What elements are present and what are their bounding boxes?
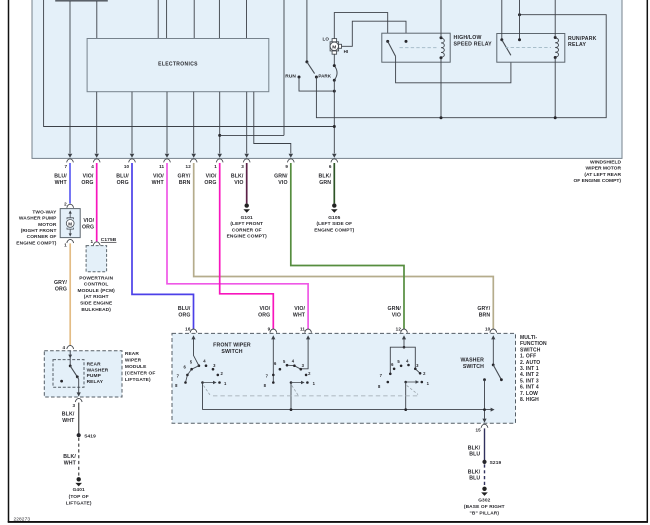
svg-text:WHT: WHT (64, 460, 77, 466)
svg-text:ORG: ORG (258, 313, 270, 319)
wire BLK/BLU S219 to G302 dashed (484, 464, 486, 485)
wire color label GRY/BRN pin 12 (178, 174, 191, 186)
washer switch output to bus and pin15 (484, 380, 486, 419)
switch1 output dot (201, 381, 204, 384)
connector MFS pin 12 (401, 329, 408, 333)
svg-text:BRN: BRN (479, 313, 491, 319)
svg-text:12: 12 (186, 164, 192, 169)
wire electronics to pin 12 (193, 92, 195, 154)
electronics box (87, 39, 269, 92)
wire from top to pin1 branch (283, 0, 285, 135)
windshield wiper motor box (32, 0, 622, 158)
svg-text:(AT LEFT REAR: (AT LEFT REAR (584, 172, 621, 178)
wire BLU/ORG pin10 to MFS pin16 (132, 163, 194, 329)
switch1 contact dots right (205, 364, 208, 367)
multi-function switch box (172, 333, 516, 423)
arrow at pin 1 (217, 154, 222, 158)
wire color label VIO/ORG pin 4 (81, 174, 94, 186)
svg-text:WHT: WHT (62, 418, 75, 424)
svg-text:6. INT 4: 6. INT 4 (520, 385, 539, 391)
svg-text:228273: 228273 (14, 517, 31, 523)
connector pin 3 of wiper motor (243, 159, 250, 163)
wire color label BLK/VIO pin 3 (231, 174, 244, 186)
svg-text:4: 4 (91, 164, 94, 169)
MFS wire color label VIO/WHT (293, 306, 306, 319)
svg-text:4. INT 2: 4. INT 2 (520, 372, 539, 378)
BLK/WHT label upper (62, 412, 75, 425)
powertrain control module label (77, 275, 115, 312)
svg-text:HI: HI (344, 49, 349, 54)
svg-text:3. INT 1: 3. INT 1 (520, 366, 539, 372)
run/park relay coil (555, 38, 558, 57)
wire BLK/WHT S419 to G401 dashed (78, 438, 80, 476)
svg-text:ORG: ORG (204, 180, 216, 186)
wire high/low coil to bus (440, 58, 442, 118)
svg-text:BLK/: BLK/ (468, 469, 481, 475)
svg-text:BLU/: BLU/ (178, 306, 191, 312)
svg-text:VIO/: VIO/ (259, 306, 270, 312)
svg-text:15: 15 (475, 428, 481, 433)
wire electronics to pin 3 (246, 92, 248, 154)
washer switch label (461, 358, 485, 370)
switch2 mech dash diag (292, 386, 298, 396)
svg-text:MOTOR: MOTOR (38, 222, 57, 228)
splice S219 (482, 460, 486, 464)
svg-text:(RIGHT FRONT: (RIGHT FRONT (21, 228, 57, 234)
park output dot (315, 76, 318, 79)
arrow at pin 10 (130, 154, 135, 158)
svg-text:BLU/: BLU/ (54, 174, 67, 180)
svg-text:RUN/PARK: RUN/PARK (568, 36, 597, 42)
connector MFS pin 11 (305, 329, 312, 333)
switch3 output to bus (405, 382, 407, 410)
wire electronics to pin 4 (96, 92, 98, 154)
svg-text:RUN: RUN (285, 73, 296, 79)
switch2 contacts 7 8 on feed (272, 374, 275, 377)
svg-text:BLU: BLU (469, 452, 480, 458)
svg-text:VIO/: VIO/ (294, 306, 305, 312)
mech dashed link line (213, 395, 420, 397)
ground G401 (77, 477, 81, 481)
svg-text:BLK/: BLK/ (63, 454, 76, 460)
junction dot run/park coil bus (554, 116, 557, 119)
rear washer pump relay box (53, 360, 84, 388)
connector pin 6 of wiper motor (331, 159, 338, 163)
run/park mech dashed link (505, 46, 551, 48)
MFS pin16 feed wire (194, 338, 199, 366)
rear relay contact dot (60, 380, 63, 383)
high/low relay switch common dot (386, 40, 389, 43)
rear relay arm end dot (76, 375, 79, 378)
ground G105 (332, 203, 336, 207)
svg-text:GRN/: GRN/ (388, 306, 402, 312)
high/low speed relay box (382, 33, 450, 62)
arrow at pin 4 (94, 154, 99, 158)
junction dot pin1 branch (218, 134, 221, 137)
svg-text:RELAY: RELAY (568, 42, 586, 48)
wire electronics to pin 10 (131, 92, 133, 154)
svg-text:16: 16 (185, 326, 191, 331)
rear relay feed wire (69, 351, 71, 366)
svg-text:11: 11 (300, 326, 305, 331)
run contact dot (298, 76, 301, 79)
BLK/BLU label upper (468, 445, 481, 457)
svg-text:2. AUTO: 2. AUTO (520, 360, 540, 366)
svg-text:1: 1 (91, 239, 94, 244)
svg-text:SWITCH: SWITCH (463, 364, 484, 370)
high/low relay contact dot (405, 40, 408, 43)
MFS pin10 feed wire (492, 338, 494, 365)
MFS wire color label GRN/VIO (388, 306, 402, 319)
connector rear module pin 3 (75, 398, 82, 402)
svg-text:ORG: ORG (55, 287, 67, 293)
svg-text:ENGINE COMPT): ENGINE COMPT) (314, 227, 354, 233)
park switch common dot (305, 60, 308, 63)
wire BLK/BLU pin15 to S219 (484, 428, 486, 460)
switch3 branch left (390, 347, 404, 374)
svg-text:BLU: BLU (469, 476, 480, 482)
svg-text:LO: LO (323, 37, 330, 42)
wire VIO/ORG pin4 to PCM (96, 163, 98, 241)
junction dot run wire (333, 90, 336, 93)
svg-text:BLK/: BLK/ (231, 174, 244, 180)
branch wire y135 to x284 (220, 134, 284, 136)
washer pump motor label (16, 210, 57, 247)
svg-text:LIFTGATE): LIFTGATE) (66, 500, 92, 506)
svg-text:SIDE ENGINE: SIDE ENGINE (80, 301, 113, 307)
svg-text:5. INT 3: 5. INT 3 (520, 378, 539, 384)
windshield wiper motor label (573, 159, 621, 184)
connector pin 10 of wiper motor (129, 159, 136, 163)
high/low relay mech dashed link (400, 47, 437, 49)
wire color label BLU/WHT pin 7 (54, 174, 67, 186)
svg-text:VIO: VIO (278, 180, 287, 186)
wire color label GRN/VIO pin 9 (274, 174, 288, 186)
switch2 digits (264, 359, 316, 389)
washer switch arm end dot (500, 378, 503, 381)
BLK/WHT label lower (63, 454, 76, 467)
svg-text:BLK/: BLK/ (62, 412, 75, 418)
svg-text:POWERTRAIN: POWERTRAIN (79, 275, 113, 281)
switch1 output to bus (202, 383, 204, 410)
MFS pin 16 entry arrow (191, 335, 195, 339)
svg-text:6: 6 (329, 164, 332, 169)
svg-text:RELAY: RELAY (87, 379, 104, 385)
svg-text:11: 11 (159, 164, 164, 169)
bus junction dot washer (483, 408, 486, 411)
svg-text:ORG: ORG (117, 180, 129, 186)
rear washer pump relay label (87, 362, 109, 385)
arrow at pin 11 (165, 154, 170, 158)
ground G401 label (66, 487, 92, 506)
arrow at pin 6 (332, 154, 337, 158)
svg-text:MODULE: MODULE (125, 364, 147, 370)
switch1 mech dash diag (204, 386, 211, 396)
arrow at pin 9 (289, 154, 294, 158)
svg-text:WHT: WHT (152, 180, 165, 186)
wire GRY/BRN pin12 to MFS pin10 (194, 163, 494, 329)
svg-text:ORG: ORG (82, 224, 94, 230)
svg-text:GRY/: GRY/ (54, 280, 67, 286)
switch2 output dot (290, 381, 293, 384)
connector pin 9 of wiper motor (287, 159, 294, 163)
svg-text:1. OFF: 1. OFF (520, 354, 536, 360)
connector pin 11 of wiper motor (164, 159, 171, 163)
switch3 contact dots (389, 373, 392, 376)
switch1 hub dot (198, 364, 201, 367)
svg-text:VIO/: VIO/ (83, 218, 94, 224)
connector washer motor pin 1 (67, 239, 74, 243)
svg-text:9: 9 (285, 164, 288, 169)
washer pump motor box (60, 209, 80, 238)
svg-text:CONTROL: CONTROL (84, 282, 109, 288)
svg-text:WIPER MOTOR: WIPER MOTOR (585, 166, 621, 172)
switch3 output arrow to contact 1 (406, 381, 417, 383)
svg-text:WINDSHIELD: WINDSHIELD (590, 159, 621, 165)
svg-text:REAR: REAR (87, 362, 101, 368)
MFS pin 9 entry arrow (271, 335, 275, 339)
wire from top to run/park contact (519, 0, 521, 40)
switch3 branch right (404, 347, 420, 373)
cut-off box at top edge (55, 0, 108, 2)
svg-text:(TOP OF: (TOP OF (69, 494, 89, 500)
svg-text:(LEFT FRONT: (LEFT FRONT (230, 221, 263, 227)
wire from top to electronics x194 (193, 0, 195, 39)
wire BLK/GRN pin6 to G105 (333, 163, 335, 203)
park switch arm (307, 62, 315, 74)
switch2 contact dots (279, 368, 282, 371)
svg-text:VIO: VIO (234, 180, 243, 186)
connector pin 4 of wiper motor (93, 159, 100, 163)
svg-text:SWITCH: SWITCH (221, 349, 242, 355)
svg-text:4: 4 (63, 345, 66, 350)
junction dot high/low coil bus (440, 116, 443, 119)
svg-text:TWO-WAY: TWO-WAY (32, 210, 57, 216)
connector washer motor pin 2 (67, 204, 74, 208)
MFS wire color label BLU/ORG (178, 306, 191, 319)
connector pin 7 of wiper motor (67, 159, 74, 163)
MFS pin 10 entry arrow (491, 335, 495, 339)
wire from top to run/park common (501, 0, 503, 40)
svg-text:CORNER OF: CORNER OF (232, 227, 262, 233)
page border right (646, 0, 648, 522)
wiper motor M symbol (330, 39, 341, 55)
high/low relay coil (441, 38, 444, 57)
multi-function switch list (520, 335, 547, 403)
svg-text:2: 2 (64, 202, 67, 207)
wire color label VIO/ORG pin 1 (204, 174, 217, 186)
high/low relay label (454, 35, 493, 47)
wire from top to electronics x246 (246, 0, 248, 39)
MFS pin 12 entry arrow (402, 335, 406, 339)
switch2 output to bus (290, 383, 292, 410)
wire color label VIO/WHT pin 11 (152, 174, 165, 186)
svg-text:G302: G302 (478, 498, 490, 504)
wire from top to electronics x158 (157, 0, 159, 39)
svg-text:M: M (68, 221, 72, 226)
svg-text:PUMP: PUMP (87, 373, 102, 379)
connector pin 12 of wiper motor (190, 159, 197, 163)
svg-text:M: M (332, 44, 336, 50)
MFS wire color label VIO/ORG (258, 306, 271, 319)
svg-text:G401: G401 (73, 487, 85, 493)
wire BLU/WHT pin7 to washer motor (69, 163, 71, 204)
junction dot pin6 bus (333, 125, 336, 128)
svg-text:WIPER: WIPER (125, 357, 142, 363)
wire pin6 chain (333, 80, 335, 153)
svg-text:WHT: WHT (55, 180, 68, 186)
page border bottom (8, 521, 648, 523)
svg-text:SWITCH: SWITCH (520, 347, 541, 353)
svg-text:VIO: VIO (392, 313, 401, 319)
wire VIO/WHT pin11 to MFS pin11 (167, 163, 308, 329)
high/low relay switch arm (388, 41, 396, 56)
wire pin7 from cut box to pin 7 (69, 1, 71, 153)
rear wiper module label (125, 351, 156, 383)
svg-text:FRONT WIPER: FRONT WIPER (213, 342, 251, 348)
connector rear module pin 4 (67, 345, 74, 349)
front wiper switch label (213, 342, 251, 355)
svg-text:3: 3 (73, 403, 76, 408)
svg-text:ENGINE COMPT): ENGINE COMPT) (227, 234, 267, 240)
wire park output to bus y117.7 (316, 15, 606, 118)
svg-text:G105: G105 (328, 215, 340, 221)
wire high/low switch output (396, 55, 511, 83)
MFS pin 11 entry arrow (306, 335, 310, 339)
svg-text:ORG: ORG (81, 180, 93, 186)
svg-text:WASHER: WASHER (87, 367, 109, 373)
svg-text:S219: S219 (490, 460, 502, 466)
bus junction dot sw2 (290, 408, 293, 411)
svg-text:7. LOW: 7. LOW (520, 391, 538, 397)
connector MFS pin 15 (481, 424, 488, 428)
connector pin 1 of wiper motor (216, 159, 223, 163)
MFS pin9 feed wire (272, 338, 274, 383)
svg-text:8. HIGH: 8. HIGH (520, 397, 539, 403)
connector MFS pin 9 (270, 329, 277, 333)
svg-text:ORG: ORG (178, 313, 190, 319)
svg-text:ENGINE COMPT): ENGINE COMPT) (16, 240, 56, 246)
wire BLK/VIO pin3 to G101 (246, 163, 248, 203)
svg-text:"B" PILLAR): "B" PILLAR) (470, 510, 500, 516)
wire from top to park switch common (306, 0, 308, 62)
rear relay output wire (77, 377, 78, 393)
GRY/ORG label (54, 280, 67, 292)
svg-text:S419: S419 (84, 433, 96, 439)
svg-text:(BASE OF RIGHT: (BASE OF RIGHT (464, 504, 505, 510)
arrow at pin 12 (191, 154, 196, 158)
wire cut box to electronics top (96, 1, 98, 39)
run/park switch common dot (500, 38, 503, 41)
svg-text:7: 7 (65, 164, 68, 169)
switch2 chain 5-4-3 (287, 365, 301, 369)
svg-text:LIFTGATE): LIFTGATE) (125, 377, 151, 383)
ground G101 (245, 203, 249, 207)
svg-text:BULKHEAD): BULKHEAD) (81, 307, 111, 313)
rear wiper module box (44, 351, 122, 397)
bus junction dot sw3 (404, 408, 407, 411)
wire run/park coil to top (554, 0, 556, 38)
junction dot at x519.5 y14.7 (518, 13, 521, 16)
svg-text:BLK/: BLK/ (468, 445, 481, 451)
BLK/BLU label lower (468, 469, 481, 481)
switch1 chain 6-7-8 (186, 366, 199, 383)
switch3 output dot (404, 381, 407, 384)
wire BLK/WHT pin3 to S419 (78, 403, 80, 434)
wire electronics to pin 9 (254, 92, 291, 154)
svg-text:(CENTER OF: (CENTER OF (125, 370, 156, 376)
svg-text:GRN/: GRN/ (274, 174, 288, 180)
connector PCM pin 1 (93, 242, 100, 246)
svg-text:GRN: GRN (319, 180, 331, 186)
MFS common bus (203, 409, 493, 411)
wire run/park coil to bus (554, 58, 556, 118)
MFS pin11 feed wire (301, 338, 308, 369)
rear relay common dot (69, 365, 72, 368)
wire electronics to pin 1 (219, 92, 221, 154)
splice S419 (77, 433, 81, 437)
wire motor HI to high-low relay contact (342, 21, 407, 46)
switch3 feed junction dot (403, 346, 406, 349)
svg-text:(LEFT SIDE OF: (LEFT SIDE OF (316, 221, 352, 227)
svg-text:GRY/: GRY/ (477, 306, 490, 312)
wire motor bottom to park contact (333, 54, 335, 65)
svg-text:1: 1 (64, 242, 67, 247)
svg-text:WASHER: WASHER (461, 358, 485, 364)
svg-text:BLU/: BLU/ (116, 174, 129, 180)
svg-text:CORNER OF: CORNER OF (27, 234, 57, 240)
wire GRN/VIO pin9 to MFS pin12 (291, 163, 404, 329)
washer switch output dot (483, 378, 486, 381)
run/park relay box (497, 34, 565, 63)
rear relay arm (70, 366, 77, 377)
wire GRY/ORG washer motor to rear module (69, 243, 71, 345)
wire run contact to pin6 wire (299, 77, 334, 91)
page border left (8, 0, 10, 522)
svg-text:G101: G101 (241, 215, 253, 221)
switch1 digits (175, 359, 227, 389)
svg-text:MODULE (PCM): MODULE (PCM) (77, 288, 115, 294)
svg-text:FUNCTION: FUNCTION (520, 341, 547, 347)
svg-text:VIO/: VIO/ (153, 174, 164, 180)
wire high/low coil to top (440, 0, 442, 38)
switch3 mech dash diag (407, 386, 418, 395)
MFS pin12 feed wire (403, 338, 405, 348)
washer switch arm (493, 365, 501, 380)
switch2 output arrow to contact 1 (291, 382, 303, 384)
wire from top at x43.6 to bus y126.5 (44, 0, 335, 127)
svg-text:MULTI-: MULTI- (520, 335, 538, 341)
VIO/ORG label at pin4 wire (82, 218, 95, 230)
svg-text:BRN: BRN (179, 180, 191, 186)
svg-text:OF ENGINE COMPT): OF ENGINE COMPT) (573, 178, 621, 184)
park arc contact (334, 66, 337, 81)
svg-text:SPEED RELAY: SPEED RELAY (454, 41, 493, 47)
switch3 digits (378, 358, 430, 389)
ground G105 label (314, 215, 354, 233)
MFS wire color label GRY/BRN (477, 306, 490, 319)
run/park switch arm (502, 40, 511, 56)
svg-text:ELECTRONICS: ELECTRONICS (158, 62, 198, 68)
svg-text:BLK/: BLK/ (319, 174, 332, 180)
svg-text:3: 3 (241, 164, 244, 169)
svg-text:10: 10 (485, 326, 491, 331)
wire color label BLU/ORG pin 10 (116, 174, 129, 186)
wire color label BLK/GRN pin 6 (319, 174, 332, 186)
connector MFS pin 10 (490, 329, 497, 333)
wire from top to electronics x166 (166, 0, 168, 39)
svg-text:WHT: WHT (293, 313, 306, 319)
